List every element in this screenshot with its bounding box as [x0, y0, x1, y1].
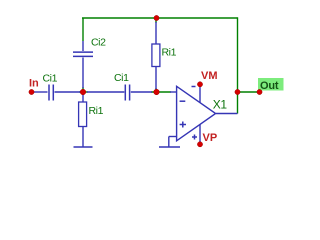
svg-text:In: In	[29, 78, 39, 90]
svg-text:Ci1: Ci1	[43, 72, 58, 84]
svg-text:VP: VP	[203, 132, 218, 144]
svg-text:Out: Out	[260, 80, 279, 92]
svg-text:VM: VM	[201, 70, 218, 82]
svg-text:X1: X1	[213, 98, 228, 112]
svg-text:Ri1: Ri1	[162, 46, 177, 58]
svg-text:Ci2: Ci2	[91, 37, 106, 49]
svg-text:Ci1: Ci1	[114, 72, 129, 84]
svg-text:Ri1: Ri1	[89, 105, 104, 117]
